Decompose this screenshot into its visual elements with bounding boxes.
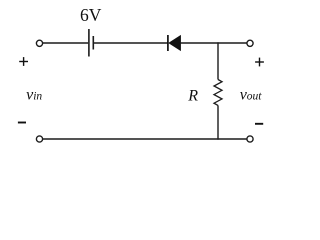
svg-text:vin: vin: [26, 87, 42, 104]
bottom wire: [43, 138, 247, 140]
wire battery to diode: [94, 42, 168, 44]
wire node to right terminal: [218, 42, 247, 44]
resistor R zigzag: [214, 80, 222, 106]
terminal bottom-right: [247, 136, 253, 142]
battery V1 long plate: [88, 29, 90, 57]
svg-text:vout: vout: [240, 87, 263, 104]
diode D1 cathode bar: [167, 35, 169, 51]
plus sign left: [19, 61, 28, 63]
wire diode to node: [181, 42, 218, 44]
battery V1 short plate: [92, 36, 94, 50]
terminal top-right: [247, 40, 253, 46]
minus sign left: [18, 122, 26, 124]
svg-text:6V: 6V: [80, 5, 102, 25]
minus sign right: [255, 123, 263, 125]
wire top-left to battery: [43, 42, 88, 44]
svg-text:R: R: [187, 87, 198, 104]
wire resistor to bottom: [217, 105, 219, 139]
wire node down to resistor: [217, 42, 219, 79]
terminal bottom-left: [36, 136, 42, 142]
terminal top-left: [36, 40, 42, 46]
diode D1 triangle: [169, 35, 181, 50]
plus sign right: [255, 61, 264, 63]
